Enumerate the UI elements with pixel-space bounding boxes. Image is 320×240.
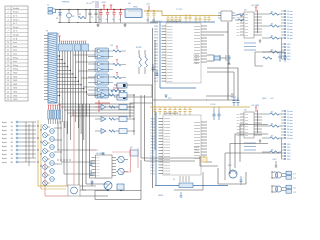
- svg-text:GND: GND: [262, 98, 267, 100]
- svg-text:D12: D12: [287, 150, 290, 152]
- svg-text:GND: GND: [13, 88, 18, 90]
- svg-text:+VIN: +VIN: [101, 2, 106, 4]
- svg-text:C3 C4: C3 C4: [210, 104, 215, 106]
- svg-text:GND: GND: [13, 73, 18, 75]
- svg-text:U2: U2: [244, 110, 246, 112]
- svg-text:22: 22: [7, 88, 9, 90]
- svg-text:D2 out: D2 out: [287, 116, 293, 119]
- svg-text:D14: D14: [287, 156, 290, 158]
- svg-text:Input: Input: [2, 121, 7, 124]
- svg-text:OSC2: OSC2: [194, 152, 199, 154]
- svg-text:D15: D15: [287, 159, 290, 161]
- svg-text:D7 out: D7 out: [287, 131, 293, 134]
- svg-text:+5V GND: +5V GND: [251, 105, 260, 107]
- svg-text:+5V GND: +5V GND: [251, 5, 260, 7]
- svg-text:D10: D10: [287, 44, 290, 46]
- svg-text:D6 out: D6 out: [287, 28, 293, 31]
- svg-text:D9 out: D9 out: [287, 137, 293, 140]
- svg-text:D1 out: D1 out: [287, 113, 293, 116]
- svg-text:Input: Input: [13, 60, 18, 63]
- svg-text:XTAL0: XTAL0: [193, 54, 199, 57]
- svg-text:GND: GND: [13, 92, 18, 94]
- svg-text:D1: D1: [294, 174, 296, 176]
- svg-text:GND: GND: [13, 80, 18, 82]
- svg-text:Input: Input: [2, 153, 7, 156]
- svg-text:D1: D1: [56, 18, 58, 20]
- svg-text:Enable: Enable: [13, 8, 19, 10]
- svg-text:Step Y: Step Y: [13, 18, 19, 21]
- svg-text:Step X: Step X: [13, 11, 19, 14]
- svg-text:Input: Input: [13, 53, 18, 56]
- svg-text:D14: D14: [287, 56, 290, 58]
- svg-text:GND: GND: [13, 84, 18, 86]
- svg-text:D8 out: D8 out: [287, 34, 293, 37]
- svg-text:16: 16: [7, 65, 9, 67]
- svg-text:1u: 1u: [99, 19, 101, 21]
- svg-text:R1: R1: [79, 14, 81, 16]
- svg-text:XTAL3: XTAL3: [193, 62, 199, 65]
- svg-text:Relay: Relay: [13, 69, 18, 71]
- svg-text:D2: D2: [294, 178, 296, 180]
- svg-text:23: 23: [7, 92, 9, 94]
- svg-text:1u: 1u: [119, 19, 121, 21]
- svg-text:Input: Input: [13, 45, 18, 48]
- svg-text:U3 ATMEGA328: U3 ATMEGA328: [163, 112, 179, 115]
- svg-text:20: 20: [7, 80, 9, 82]
- svg-text:D5 out: D5 out: [287, 125, 293, 128]
- svg-text:R2: R2: [271, 36, 273, 38]
- svg-text:D2: D2: [294, 192, 296, 194]
- svg-text:R0: R0: [271, 12, 273, 14]
- svg-text:D11: D11: [287, 47, 290, 49]
- svg-text:Input: Input: [2, 137, 7, 140]
- svg-text:U6 LM358: U6 LM358: [96, 153, 105, 155]
- svg-text:RESET/PC6: RESET/PC6: [152, 21, 162, 23]
- svg-text:D3 out: D3 out: [287, 19, 293, 22]
- svg-text:1u: 1u: [112, 19, 114, 21]
- svg-text:10u: 10u: [146, 20, 149, 22]
- svg-text:D1: D1: [92, 2, 94, 4]
- svg-text:D11: D11: [287, 147, 290, 149]
- svg-text:R3: R3: [271, 50, 273, 52]
- svg-text:C1-C4: C1-C4: [86, 3, 91, 5]
- svg-text:SP1: SP1: [228, 165, 232, 167]
- svg-text:C7 C8: C7 C8: [176, 9, 183, 11]
- svg-text:Dir Y: Dir Y: [13, 22, 18, 25]
- svg-text:Input: Input: [13, 49, 18, 52]
- svg-text:Input: Input: [2, 161, 7, 164]
- svg-text:R0: R0: [271, 112, 273, 114]
- svg-text:Input: Input: [2, 133, 7, 136]
- svg-text:Relay: Relay: [13, 65, 18, 67]
- svg-text:D4 out: D4 out: [287, 122, 293, 125]
- svg-text:D6 out: D6 out: [287, 128, 293, 131]
- svg-text:Input: Input: [2, 141, 7, 144]
- svg-text:Input: Input: [2, 149, 7, 152]
- svg-text:D13: D13: [287, 53, 290, 55]
- svg-text:D0 out: D0 out: [287, 10, 293, 13]
- svg-text:R2: R2: [271, 136, 273, 138]
- svg-text:U1 ATMEGA328: U1 ATMEGA328: [166, 20, 182, 23]
- svg-text:1u: 1u: [106, 19, 108, 21]
- svg-text:D3 out: D3 out: [287, 119, 293, 122]
- svg-text:2: 2: [7, 12, 8, 14]
- svg-text:D0 out: D0 out: [287, 110, 293, 113]
- svg-text:C12: C12: [168, 98, 171, 100]
- svg-text:C1: C1: [91, 17, 93, 19]
- svg-text:Input: Input: [2, 157, 7, 160]
- svg-text:Input: Input: [13, 41, 18, 44]
- svg-text:25: 25: [7, 99, 9, 101]
- svg-text:Dir X: Dir X: [13, 15, 18, 18]
- svg-text:XTAL1: XTAL1: [193, 57, 199, 60]
- svg-text:1: 1: [7, 8, 8, 10]
- svg-text:21: 21: [7, 84, 9, 86]
- svg-text:Input: Input: [2, 125, 7, 128]
- svg-text:D12: D12: [287, 50, 290, 52]
- svg-text:Input: Input: [2, 145, 7, 148]
- svg-text:D15: D15: [287, 59, 290, 61]
- svg-text:D1 out: D1 out: [287, 13, 293, 16]
- svg-text:Step Z: Step Z: [13, 26, 19, 29]
- svg-text:D9 out: D9 out: [287, 37, 293, 40]
- svg-text:R3: R3: [271, 150, 273, 152]
- svg-text:Step A: Step A: [13, 34, 19, 37]
- svg-text:18: 18: [7, 73, 9, 75]
- svg-text:Input: Input: [2, 129, 7, 132]
- svg-text:GND: GND: [13, 99, 18, 101]
- svg-text:PWR IN: PWR IN: [62, 2, 70, 4]
- svg-text:C5: C5: [231, 94, 233, 96]
- svg-text:R1: R1: [271, 124, 273, 126]
- svg-text:D10: D10: [287, 144, 290, 146]
- svg-text:U2: U2: [244, 10, 246, 12]
- svg-text:D4 out: D4 out: [287, 22, 293, 25]
- svg-text:D5 out: D5 out: [287, 25, 293, 28]
- svg-text:D7 out: D7 out: [287, 31, 293, 34]
- svg-text:17: 17: [7, 69, 9, 71]
- svg-text:GND2: GND2: [158, 195, 163, 197]
- svg-text:D13: D13: [287, 153, 290, 155]
- svg-text:D1: D1: [294, 188, 296, 190]
- svg-text:R1: R1: [271, 24, 273, 26]
- svg-text:P1: P1: [46, 31, 48, 33]
- svg-text:+24V: +24V: [272, 159, 277, 161]
- svg-text:D8 out: D8 out: [287, 134, 293, 137]
- svg-text:XTAL2: XTAL2: [193, 59, 199, 62]
- svg-text:D2 out: D2 out: [287, 16, 293, 19]
- svg-text:R3 R4: R3 R4: [136, 47, 141, 49]
- svg-text:X1: X1: [173, 179, 175, 181]
